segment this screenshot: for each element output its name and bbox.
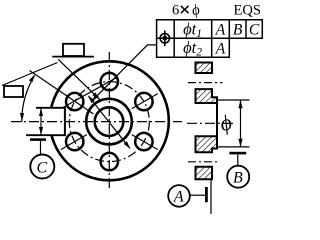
wire phi dimension line — [240, 100, 242, 147]
wire section bolt hole axis top — [188, 82, 223, 84]
wire horizontal centerline front view — [11, 121, 182, 123]
wire hub right face — [216, 97, 218, 148]
svg-text:C: C — [36, 159, 47, 176]
svg-text:B: B — [233, 170, 243, 187]
node TED box angle — [4, 86, 23, 97]
wire vertical centerline front view — [108, 52, 110, 191]
wire angle ray — [2, 63, 58, 86]
wire datum C stem — [40, 141, 42, 155]
svg-text:B: B — [233, 22, 243, 39]
wire datum A extension line — [210, 179, 212, 214]
node datum A circle — [168, 185, 190, 207]
wire section main axis — [187, 122, 235, 124]
section view: hatched block B2 with hub step — [196, 89, 218, 103]
node center bore circle — [95, 107, 124, 136]
datum A symbol bar — [205, 187, 208, 202]
wire chord line through holes H1 H6 — [62, 77, 117, 108]
node hole H2 upper-right — [135, 93, 152, 110]
section view: hatched block B1 — [196, 63, 213, 74]
svg-text:A: A — [215, 22, 226, 39]
node bolt circle (dash-dot) — [69, 82, 149, 162]
wire keyway width dimension line — [40, 108, 42, 135]
position symbol — [158, 31, 171, 47]
section view: hatched block B3 with hub step — [196, 136, 218, 152]
node TED box bolt circle — [63, 44, 84, 56]
node hole H5 lower-left — [66, 133, 83, 150]
wire datum B stem — [237, 154, 239, 165]
node feature control frame table — [156, 20, 263, 58]
node hole H1 top — [101, 73, 118, 90]
node outer flange circle — [50, 61, 169, 180]
svg-text:C: C — [249, 22, 260, 39]
node datum B circle — [227, 166, 249, 188]
wire phi dimension extension line bottom — [217, 146, 250, 148]
node hole H4 bottom — [101, 153, 118, 170]
datum C symbol bar — [30, 138, 46, 141]
node datum C circle — [30, 155, 54, 179]
node hole H6 upper-left — [66, 93, 83, 110]
node keyway notch — [26, 107, 65, 136]
section view: hatched block B4 — [196, 167, 213, 180]
wire angular dimension arc — [22, 76, 35, 123]
wire radial centerline hole H3 — [132, 135, 158, 150]
wire section bolt hole axis bottom — [188, 161, 219, 163]
wire datum A leader — [190, 194, 205, 196]
wire radial centerline hole H2 — [132, 94, 158, 109]
wire radial centerline hole H6 — [30, 71, 94, 115]
svg-text:A: A — [173, 189, 184, 206]
wire phi dimension extension line top — [217, 99, 250, 101]
svg-text:EQS: EQS — [234, 3, 261, 19]
svg-text:6: 6 — [172, 3, 179, 19]
wire bolt-circle diameter dimension line — [89, 96, 130, 148]
wire radial centerline hole H5 — [61, 135, 87, 150]
node hub circle — [86, 99, 132, 145]
datum B symbol bar — [229, 152, 246, 155]
svg-text:A: A — [215, 40, 226, 57]
wire leader from tolerance frame through hole H1 — [92, 45, 157, 101]
node hole H3 lower-right — [135, 133, 152, 150]
wire TED box leader — [58, 59, 100, 99]
